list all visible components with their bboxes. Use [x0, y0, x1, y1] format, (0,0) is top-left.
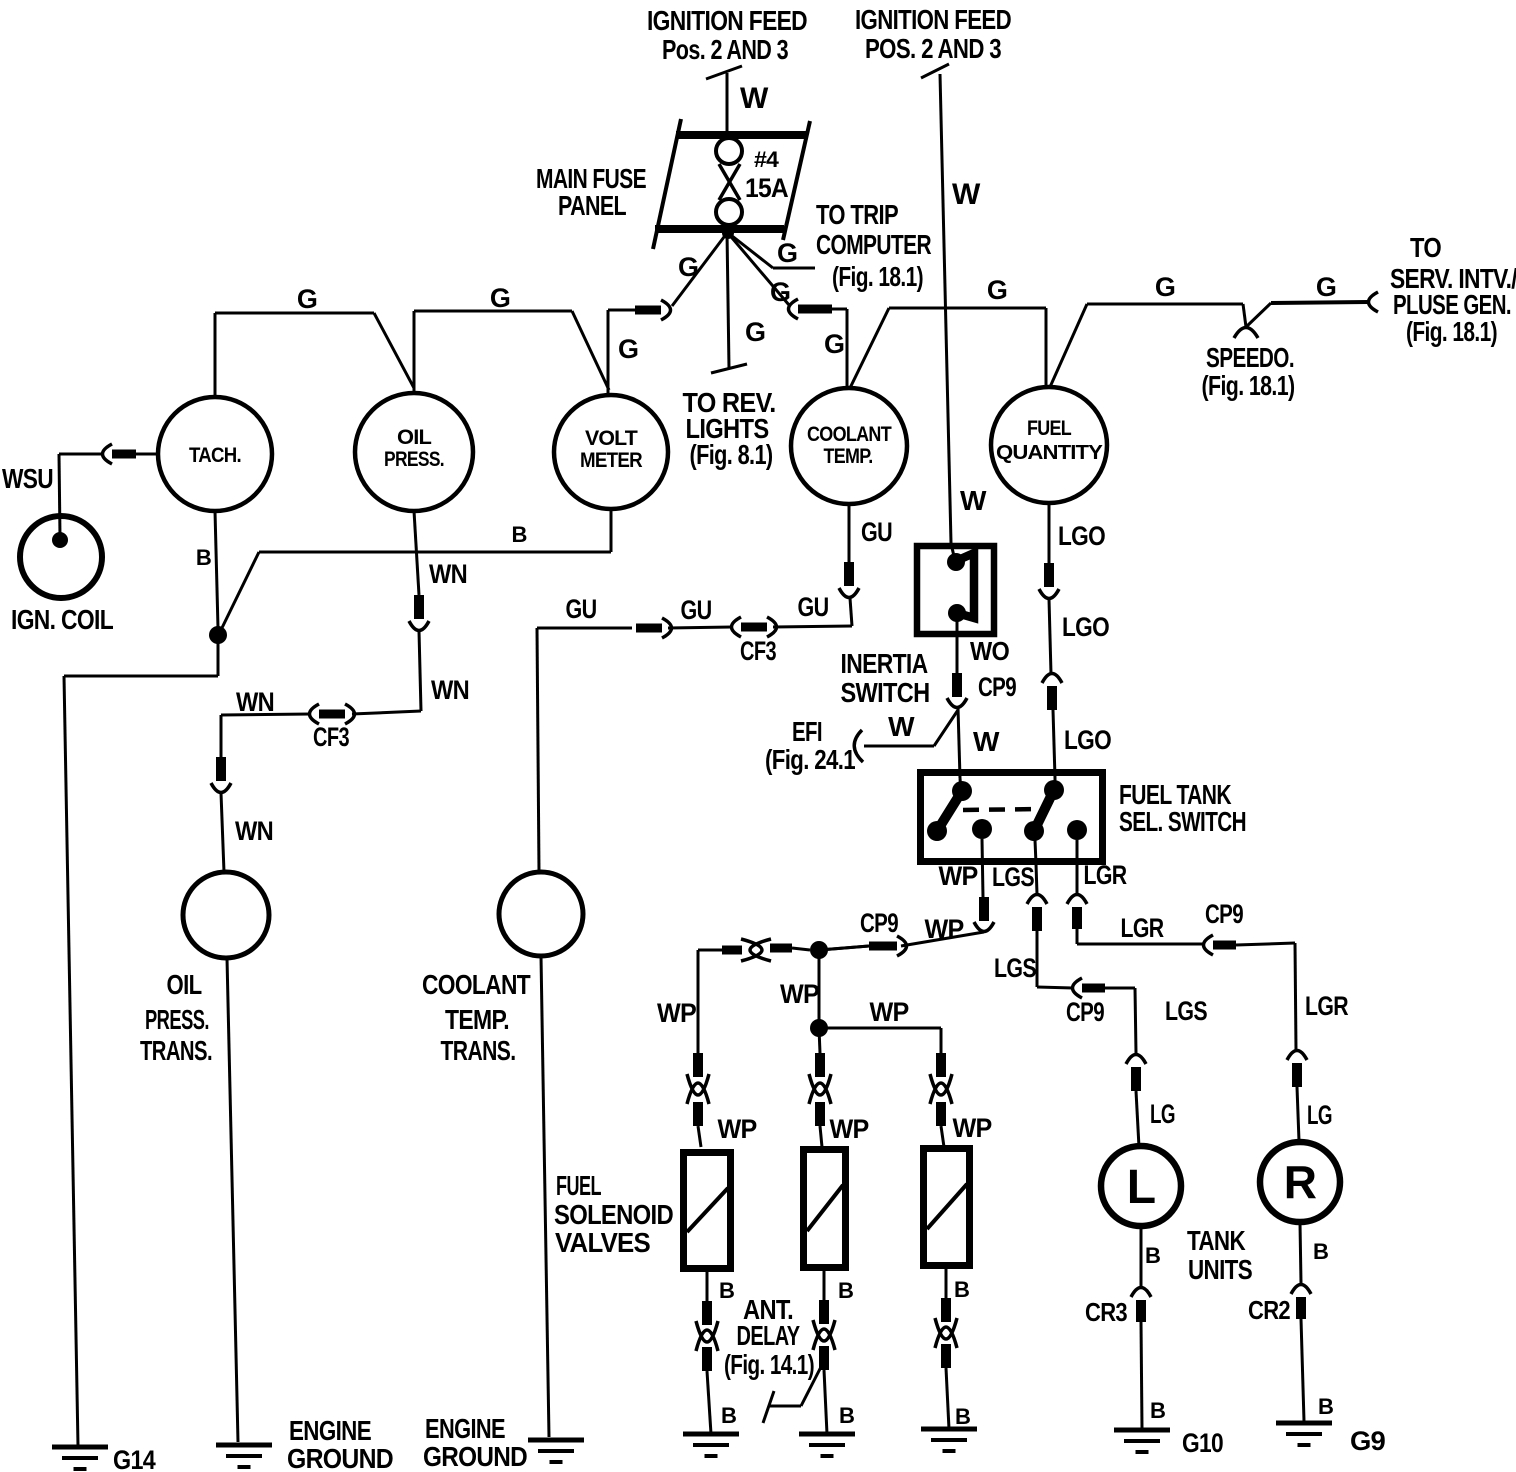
svg-text:15A: 15A [745, 173, 788, 203]
svg-text:WP: WP [925, 914, 965, 944]
svg-text:(Fig. 8.1): (Fig. 8.1) [690, 439, 773, 470]
svg-text:LGO: LGO [1062, 612, 1109, 642]
svg-text:(Fig. 18.1): (Fig. 18.1) [832, 261, 923, 292]
svg-text:LG: LG [1150, 1099, 1175, 1129]
svg-text:WO: WO [970, 636, 1010, 666]
svg-text:QUANTITY: QUANTITY [996, 442, 1104, 464]
svg-text:WSU: WSU [2, 463, 53, 494]
svg-text:ENGINE: ENGINE [289, 1415, 371, 1446]
svg-text:W: W [952, 178, 981, 211]
svg-text:G14: G14 [113, 1445, 156, 1472]
svg-text:IGNITION FEED: IGNITION FEED [647, 5, 807, 36]
svg-text:GU: GU [681, 595, 712, 625]
svg-text:W: W [888, 711, 915, 742]
svg-text:B: B [954, 1277, 969, 1302]
svg-text:TO TRIP: TO TRIP [816, 199, 898, 230]
svg-text:WP: WP [830, 1114, 870, 1144]
svg-text:CP9: CP9 [1205, 899, 1244, 929]
svg-text:G: G [618, 334, 638, 364]
svg-text:POS. 2 AND 3: POS. 2 AND 3 [865, 33, 1001, 64]
svg-text:ENGINE: ENGINE [425, 1413, 505, 1444]
svg-text:COOLANT: COOLANT [807, 423, 892, 446]
svg-text:B: B [1150, 1398, 1165, 1423]
svg-text:PRESS.: PRESS. [145, 1004, 209, 1035]
svg-text:B: B [719, 1278, 734, 1303]
svg-text:VOLT: VOLT [585, 427, 638, 450]
svg-text:TEMP.: TEMP. [445, 1004, 509, 1035]
svg-text:W: W [973, 726, 1000, 757]
svg-text:METER: METER [580, 449, 643, 472]
svg-text:FUEL: FUEL [1027, 417, 1072, 440]
svg-text:WN: WN [431, 675, 469, 705]
svg-text:TO: TO [1410, 232, 1441, 263]
svg-text:B: B [838, 1278, 853, 1303]
svg-text:TRANS.: TRANS. [140, 1035, 212, 1066]
svg-text:COOLANT: COOLANT [422, 969, 531, 1000]
svg-text:LGO: LGO [1064, 725, 1111, 755]
svg-text:G: G [824, 329, 844, 359]
svg-text:B: B [839, 1403, 854, 1428]
svg-text:#4: #4 [754, 147, 780, 172]
svg-text:VALVES: VALVES [555, 1227, 650, 1258]
svg-text:B: B [511, 522, 526, 547]
svg-text:WP: WP [870, 997, 910, 1027]
svg-text:G: G [745, 317, 765, 347]
svg-text:R: R [1284, 1156, 1317, 1208]
svg-text:PRESS.: PRESS. [384, 448, 444, 471]
svg-text:IGNITION FEED: IGNITION FEED [855, 4, 1011, 35]
svg-text:B: B [1145, 1243, 1160, 1268]
svg-text:(Fig. 18.1): (Fig. 18.1) [1406, 316, 1497, 347]
svg-text:WP: WP [718, 1114, 758, 1144]
svg-text:SOLENOID: SOLENOID [554, 1199, 673, 1230]
svg-text:WP: WP [780, 979, 820, 1009]
svg-text:B: B [721, 1403, 736, 1428]
svg-text:GROUND: GROUND [423, 1441, 527, 1472]
svg-text:W: W [960, 485, 987, 516]
svg-text:CP9: CP9 [978, 672, 1017, 702]
svg-text:FUEL: FUEL [556, 1170, 601, 1201]
svg-text:(Fig. 14.1): (Fig. 14.1) [724, 1349, 814, 1380]
svg-text:G: G [1316, 272, 1336, 302]
svg-text:LGR: LGR [1084, 860, 1127, 890]
svg-text:WN: WN [429, 559, 467, 589]
svg-text:IGN. COIL: IGN. COIL [11, 604, 114, 635]
svg-text:WN: WN [236, 687, 274, 717]
svg-text:LGS: LGS [992, 862, 1034, 892]
svg-text:LGR: LGR [1305, 991, 1348, 1021]
svg-text:EFI: EFI [792, 716, 822, 747]
svg-text:G9: G9 [1350, 1426, 1386, 1456]
svg-text:CP9: CP9 [860, 908, 899, 938]
svg-text:DELAY: DELAY [737, 1320, 801, 1351]
svg-text:CP9: CP9 [1066, 997, 1105, 1027]
svg-text:OIL: OIL [167, 969, 203, 1000]
svg-text:SEL. SWITCH: SEL. SWITCH [1119, 806, 1246, 837]
svg-text:UNITS: UNITS [1188, 1254, 1252, 1285]
svg-text:Pos. 2 AND 3: Pos. 2 AND 3 [662, 34, 788, 65]
svg-text:CR3: CR3 [1085, 1297, 1127, 1327]
svg-text:G: G [987, 275, 1007, 305]
svg-text:B: B [196, 545, 211, 570]
svg-text:GU: GU [566, 594, 597, 624]
svg-text:WN: WN [235, 816, 273, 846]
svg-text:G: G [678, 252, 698, 282]
svg-text:LGS: LGS [994, 953, 1036, 983]
svg-text:LGS: LGS [1165, 996, 1207, 1026]
svg-text:TEMP.: TEMP. [824, 445, 873, 468]
svg-text:(Fig. 24.1: (Fig. 24.1 [765, 744, 855, 775]
svg-text:OIL: OIL [397, 426, 432, 449]
svg-text:CR2: CR2 [1248, 1295, 1290, 1325]
svg-text:W: W [740, 82, 769, 115]
svg-text:CF3: CF3 [313, 722, 350, 752]
svg-text:SWITCH: SWITCH [841, 677, 930, 708]
svg-text:PANEL: PANEL [558, 190, 627, 221]
svg-text:G: G [490, 283, 510, 313]
svg-text:B: B [1318, 1394, 1333, 1419]
svg-text:B: B [1313, 1239, 1328, 1264]
svg-text:GU: GU [798, 592, 829, 622]
svg-text:GROUND: GROUND [287, 1443, 394, 1472]
svg-text:L: L [1127, 1161, 1156, 1214]
svg-text:COMPUTER: COMPUTER [816, 229, 931, 260]
svg-text:SPEEDO.: SPEEDO. [1206, 342, 1294, 373]
svg-text:WP: WP [657, 998, 697, 1028]
svg-text:TRANS.: TRANS. [441, 1035, 516, 1066]
svg-text:(Fig. 18.1): (Fig. 18.1) [1202, 370, 1295, 401]
svg-text:LGO: LGO [1058, 521, 1105, 551]
svg-text:LGR: LGR [1121, 913, 1164, 943]
svg-text:G: G [777, 238, 797, 268]
svg-text:WP: WP [953, 1113, 993, 1143]
svg-text:CF3: CF3 [740, 636, 777, 666]
svg-text:WP: WP [939, 861, 979, 891]
svg-text:LG: LG [1307, 1100, 1332, 1130]
svg-text:G: G [297, 284, 317, 314]
svg-text:B: B [955, 1404, 970, 1429]
svg-text:TACH.: TACH. [189, 444, 241, 467]
svg-text:G10: G10 [1182, 1428, 1223, 1458]
svg-text:INERTIA: INERTIA [841, 648, 928, 679]
svg-text:TANK: TANK [1187, 1225, 1245, 1256]
svg-text:GU: GU [861, 517, 892, 547]
svg-text:G: G [1155, 272, 1175, 302]
